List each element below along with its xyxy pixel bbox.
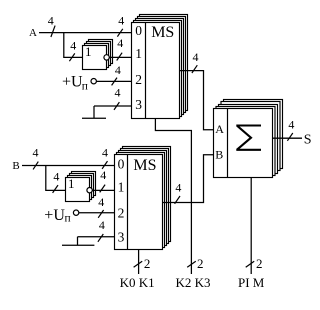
svg-text:2: 2 — [118, 206, 125, 221]
svg-text:4: 4 — [175, 180, 181, 194]
svg-text:4: 4 — [115, 63, 121, 77]
svg-text:4: 4 — [98, 195, 104, 209]
svg-text:+U: +U — [62, 73, 83, 90]
svg-text:A: A — [215, 122, 224, 136]
svg-text:4: 4 — [53, 169, 59, 183]
svg-text:4: 4 — [99, 218, 105, 232]
svg-text:S: S — [304, 132, 312, 147]
svg-text:1: 1 — [85, 44, 92, 59]
svg-text:3: 3 — [135, 97, 142, 112]
svg-text:4: 4 — [33, 145, 39, 159]
svg-text:1: 1 — [68, 176, 75, 191]
svg-text:0: 0 — [135, 23, 142, 38]
svg-text:B: B — [12, 160, 19, 172]
svg-text:A: A — [29, 27, 37, 39]
svg-text:MS: MS — [133, 157, 156, 174]
svg-text:1: 1 — [118, 180, 125, 195]
svg-text:п: п — [82, 81, 88, 93]
svg-text:4: 4 — [100, 168, 106, 182]
svg-text:2: 2 — [144, 256, 151, 271]
svg-text:B: B — [215, 148, 223, 162]
svg-text:K2 K3: K2 K3 — [175, 275, 210, 290]
svg-text:1: 1 — [135, 46, 142, 61]
svg-text:2: 2 — [135, 72, 142, 87]
svg-text:4: 4 — [118, 14, 124, 28]
svg-text:K0 K1: K0 K1 — [120, 275, 155, 290]
svg-text:4: 4 — [115, 86, 121, 100]
svg-text:п: п — [65, 212, 71, 224]
svg-text:4: 4 — [48, 13, 54, 27]
svg-text:4: 4 — [117, 36, 123, 50]
svg-text:+U: +U — [44, 207, 65, 224]
svg-text:4: 4 — [288, 118, 294, 132]
svg-text:MS: MS — [151, 24, 174, 41]
svg-text:2: 2 — [256, 256, 263, 271]
svg-text:3: 3 — [118, 230, 125, 245]
svg-text:0: 0 — [118, 157, 125, 172]
svg-text:PI M: PI M — [238, 275, 265, 290]
svg-text:2: 2 — [197, 256, 204, 271]
svg-text:4: 4 — [193, 50, 199, 64]
svg-text:4: 4 — [70, 38, 76, 52]
svg-text:4: 4 — [102, 146, 108, 160]
